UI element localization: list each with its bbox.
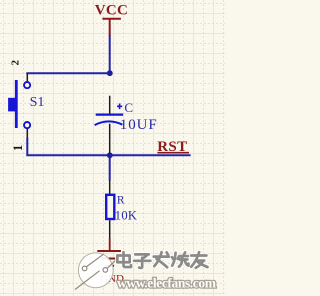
switch S1 button cap — [8, 98, 15, 112]
resistor R pin 2 — [109, 220, 111, 239]
capacitor C pin 2 — [109, 124, 111, 154]
watermark text 电子发烧友 (drawn strokes) — [117, 252, 207, 268]
capacitor C bottom plate (curved) — [95, 121, 123, 125]
junction A — [107, 70, 113, 76]
svg-text:10K: 10K — [115, 208, 137, 222]
junction B — [107, 152, 113, 158]
watermark logo circle — [75, 253, 119, 290]
svg-text:1: 1 — [11, 145, 25, 151]
GND bar 3 — [105, 265, 114, 267]
switch S1 bottom contact — [24, 122, 30, 128]
power port VCC — [95, 3, 128, 36]
svg-text:R: R — [117, 195, 125, 207]
resistor R body — [106, 195, 114, 219]
switch S1 actuator bar — [15, 80, 18, 128]
switch S1 pin 2 stub — [26, 73, 28, 82]
svg-text:10UF: 10UF — [120, 117, 158, 133]
net label RST — [157, 139, 189, 155]
switch S1 pin 1 stub — [26, 128, 28, 138]
GND bar 2 — [101, 258, 117, 260]
power port GND stem — [109, 239, 111, 252]
svg-text:2: 2 — [10, 60, 22, 66]
resistor R pin 1 — [109, 180, 111, 194]
switch S1 top contact — [24, 82, 30, 88]
svg-text:www.elecfans.com: www.elecfans.com — [117, 276, 217, 291]
capacitor C pin 1 — [109, 96, 111, 114]
GND bar 1 — [97, 250, 121, 252]
svg-text:C: C — [124, 100, 133, 115]
wire junction A to switch pin 2 — [26, 72, 109, 74]
wire VCC to junction A — [109, 35, 111, 73]
capacitor C top plate — [96, 113, 124, 115]
wire junction B to RST — [110, 154, 191, 156]
wire switch pin 1 to junction B — [27, 138, 109, 156]
svg-text:VCC: VCC — [95, 3, 128, 19]
capacitor C plus sign — [117, 104, 122, 110]
wire junction B to resistor — [109, 155, 111, 180]
svg-text:S1: S1 — [30, 95, 45, 110]
